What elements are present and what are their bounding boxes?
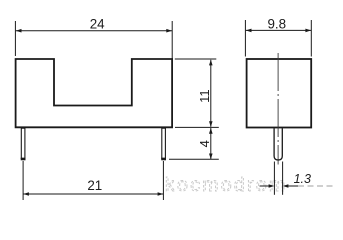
- side view pin: [274, 128, 282, 160]
- svg-text:9.8: 9.8: [267, 16, 286, 31]
- svg-text:24: 24: [90, 17, 105, 32]
- watermark kosmodrom: [165, 174, 334, 196]
- dimension 21: [23, 161, 163, 200]
- side view body: [247, 59, 312, 128]
- front view body outline: [16, 59, 173, 127]
- dimension 11: [175, 59, 217, 127]
- front view left pin: [21, 128, 26, 159]
- dimension 1.3: [260, 162, 312, 195]
- dimension 24: [15, 17, 172, 59]
- svg-text:11: 11: [197, 89, 212, 103]
- svg-text:4: 4: [197, 140, 212, 147]
- svg-text:21: 21: [87, 178, 102, 193]
- svg-text:1.3: 1.3: [294, 172, 311, 186]
- dimension 9.8: [245, 16, 311, 56]
- dimension 4: [169, 127, 219, 159]
- front view right pin: [161, 128, 166, 159]
- side view centerline: [277, 53, 279, 165]
